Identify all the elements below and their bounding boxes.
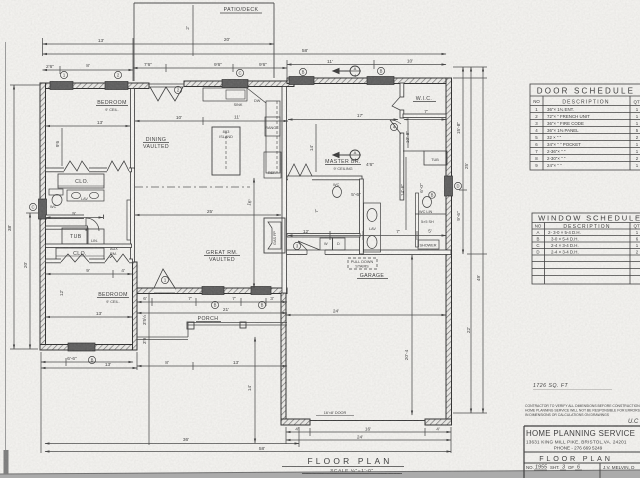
- dim 2' patio ext: [192, 5, 194, 56]
- master south wall: [287, 176, 362, 180]
- kitchen 10'/11' dim: [135, 120, 288, 122]
- exterior wall: bedroom2 bottom: [40, 345, 137, 351]
- exterior wall: garage left: [281, 293, 286, 425]
- window schedule table: [532, 213, 640, 284]
- porch 21' dim: [137, 312, 287, 314]
- kitchen side counter: [266, 101, 280, 173]
- window schedule rows: [536, 230, 638, 255]
- garage 24' bottom dim: [286, 439, 451, 441]
- door opening garage north + swing: [307, 249, 325, 256]
- left dim 20': [29, 213, 31, 349]
- mbath toilet: [423, 197, 432, 208]
- lav vanity: [67, 190, 104, 201]
- master bath tub: [424, 151, 447, 165]
- exterior wall: bedroom2 right / porch west: [133, 262, 138, 350]
- exterior wall: right: [446, 78, 452, 425]
- exterior wall: left: [40, 83, 46, 350]
- french door opening w/ swing triangles: [149, 83, 184, 85]
- dim row above left wall: [43, 69, 134, 71]
- window bedroom2: [68, 343, 95, 351]
- dim 11'/10' top right: [287, 64, 446, 66]
- window D right wall: [445, 176, 453, 196]
- master bath west wall: [360, 179, 364, 254]
- wic west wall: [400, 83, 404, 97]
- garage door line: [310, 420, 425, 422]
- section markers A/4: [333, 66, 361, 160]
- door schedule table: [530, 84, 640, 170]
- vault dashed line: [135, 186, 250, 188]
- mbath shower walls: [416, 193, 419, 247]
- 10-8 vert: [407, 121, 409, 148]
- bedroom2 bottom dims: [41, 361, 133, 363]
- laundry 12'/7'/5' dim: [288, 235, 446, 237]
- porch south edge: [137, 323, 287, 340]
- window C left wall: [39, 199, 47, 219]
- wc toilet: [49, 189, 63, 195]
- shower box: [418, 240, 439, 249]
- garage bottom dims 4'/16'/4': [286, 431, 451, 433]
- master door leaf: [390, 120, 401, 134]
- left dim 38': [13, 85, 15, 349]
- title block: [524, 426, 640, 478]
- porch 14' vert dim: [254, 337, 256, 443]
- hall bath mid wall: [46, 215, 104, 219]
- dim row 7'6 / 9'6 / 9'6: [133, 67, 287, 69]
- exterior wall: top-right (master/wic): [287, 78, 448, 84]
- master lav counter: [364, 203, 381, 252]
- fireplace gas fp: [264, 218, 285, 253]
- window C kitchen: [222, 80, 248, 88]
- door swing hall bath: [86, 218, 99, 231]
- porch vert ext: [148, 294, 150, 445]
- exterior wall: top-left (bedroom1/dining): [40, 83, 149, 89]
- 9'6 vert dim bedroom1: [61, 128, 63, 166]
- disclaimer note: [525, 404, 640, 417]
- interior wall: bedroom1 east: [131, 89, 135, 169]
- ref: [264, 152, 281, 178]
- interior wall: dining west: [131, 168, 135, 262]
- tub: [62, 228, 88, 244]
- bifold doors bedroom1 closet: [64, 161, 89, 171]
- great rm 16' vert dim: [253, 178, 255, 288]
- master wc toilet: [333, 187, 342, 198]
- door schedule rows: [535, 107, 639, 168]
- exterior wall: great room south: [137, 288, 287, 294]
- 14-6 vert: [405, 157, 407, 230]
- wall below tub: [46, 244, 132, 248]
- door opening + swing great room south: [154, 289, 175, 294]
- window great room south 2: [251, 287, 271, 295]
- window 2 top-left: [105, 82, 128, 90]
- 58' bottom dim: [45, 451, 451, 453]
- clo2: [56, 248, 104, 260]
- 36' bottom dim: [45, 443, 299, 445]
- right dims: [462, 67, 464, 254]
- garage 20'-4 vert dim: [411, 255, 413, 415]
- garage 24' dim: [286, 314, 446, 316]
- window B master 2: [367, 77, 394, 85]
- hall 9' dim: [46, 217, 103, 219]
- bedroom2 13' dim: [46, 316, 133, 318]
- exterior wall: garage bottom stubs: [281, 419, 310, 425]
- garage north wall: [286, 250, 451, 255]
- pull down stairs: [348, 258, 377, 269]
- interior wall: bedroom1 south: [46, 168, 132, 172]
- island 8x3: [212, 127, 240, 175]
- kitchen corner diagonal: [247, 88, 266, 103]
- wic south wall: [403, 114, 446, 118]
- tub room walls: [46, 226, 88, 229]
- lin closet: [87, 229, 104, 245]
- window B master 1: [289, 77, 314, 85]
- closet row 9'/4' dim: [46, 273, 132, 275]
- dim 13'/20' top: [43, 43, 275, 45]
- washer dryer: [320, 238, 333, 250]
- exterior wall: top-center (kitchen): [184, 81, 294, 87]
- master bed east wall (corridor): [400, 133, 404, 200]
- porch dims 6' 7' 7' 3': [137, 301, 287, 303]
- hall east wall: [127, 200, 131, 240]
- patio/deck outline: [134, 3, 274, 81]
- laundry north wall: [287, 234, 360, 238]
- bottom scan edge band: [0, 470, 640, 478]
- great room 25' dim: [135, 214, 281, 216]
- wic door: [392, 97, 400, 110]
- closet CLO hall: [58, 174, 104, 188]
- window great room south 1: [202, 287, 224, 295]
- window 1 top-left: [50, 82, 73, 90]
- master 17'/7' dim: [288, 119, 398, 121]
- master 14' vert: [315, 124, 317, 172]
- dim 58' top: [43, 53, 447, 55]
- bifold doors bedroom2: [61, 254, 89, 262]
- bedroom1 13' dim: [46, 125, 131, 127]
- range: [265, 117, 280, 136]
- circled window/door markers: [29, 67, 461, 363]
- dimension lines: [10, 5, 487, 453]
- kitchen top counter + sink: [203, 88, 247, 101]
- porch post 2: [240, 322, 246, 328]
- kitchen / great room east wall: [282, 87, 287, 294]
- left page border line: [5, 42, 7, 474]
- porch post 1: [187, 322, 194, 329]
- bedroom2 north wall: [46, 259, 133, 263]
